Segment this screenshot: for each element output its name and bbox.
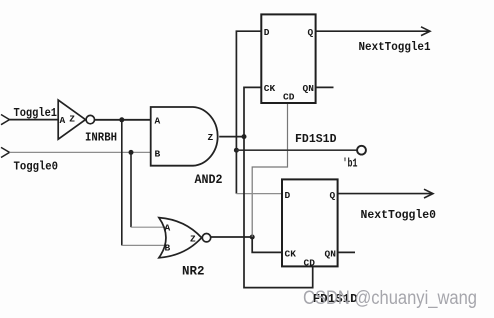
wire U1 Q to NextToggle1 — [316, 30, 430, 32]
svg-text:A: A — [60, 115, 66, 126]
wire into U1 CK — [244, 87, 313, 287]
svg-text:Q: Q — [330, 190, 336, 201]
nor-gate NR2 — [159, 218, 202, 258]
svg-text:FD1S1D: FD1S1D — [295, 132, 337, 146]
svg-text:CK: CK — [264, 83, 276, 94]
svg-text:AND2: AND2 — [195, 173, 223, 187]
svg-text:D: D — [264, 27, 270, 38]
svg-text:Z: Z — [190, 234, 196, 245]
svg-text:INRBH: INRBH — [85, 131, 117, 145]
junction dot on Toggle0 line — [129, 150, 134, 155]
svg-text:Q: Q — [308, 27, 314, 38]
junction dot AND2 output — [242, 134, 247, 139]
wire AND2 Z output — [219, 136, 244, 138]
wire inverter output down to NR2 B — [121, 120, 123, 246]
svg-text:Toggle1: Toggle1 — [14, 106, 58, 120]
svg-text:QN: QN — [325, 249, 337, 260]
svg-text:Toggle0: Toggle0 — [14, 160, 59, 174]
wire inverter Z to AND2 A — [95, 119, 151, 121]
svg-text:NextToggle1: NextToggle1 — [359, 40, 431, 54]
bubble of NR2 — [202, 234, 210, 242]
and-gate AND2 — [151, 107, 218, 166]
wire NR2 output up to U1 CD — [252, 103, 287, 237]
stub U2 QN — [338, 251, 355, 253]
junction dot on b1 net — [234, 148, 239, 153]
svg-text:NR2: NR2 — [182, 265, 205, 279]
wire into U1 D — [236, 31, 261, 193]
svg-text:Z: Z — [208, 132, 214, 143]
wire NR2 output down to U2 CK — [252, 237, 282, 252]
input port Toggle1 — [1, 115, 10, 125]
junction dot NR2 output — [250, 235, 255, 240]
inverter U3 INRBH — [58, 100, 94, 139]
wire NR2 Z output — [211, 236, 253, 238]
wire into NR2 A — [131, 226, 167, 228]
svg-text:Z: Z — [69, 114, 75, 125]
svg-text:CSDN @chuanyi_wang: CSDN @chuanyi_wang — [303, 288, 477, 309]
wire U2 Q to NextToggle0 — [338, 193, 433, 195]
wire Toggle0 to AND2 B — [10, 151, 151, 153]
flip-flop U1 FD1S1D — [261, 14, 315, 103]
flip-flop U2 FD1S1D — [282, 179, 338, 266]
svg-text:A: A — [155, 116, 161, 127]
arrowhead NextToggle1 — [421, 27, 430, 36]
wire into NR2 B — [122, 244, 167, 246]
svg-text:D: D — [285, 190, 291, 201]
svg-text:B: B — [165, 243, 171, 254]
svg-text:'b1: 'b1 — [343, 158, 358, 171]
terminal circle b1 — [357, 146, 366, 155]
svg-text:A: A — [165, 223, 171, 234]
input port Toggle0 — [1, 147, 10, 157]
svg-text:CK: CK — [285, 249, 297, 260]
stub U1 QN — [316, 86, 334, 88]
wire b1 net — [236, 149, 357, 151]
svg-text:CD: CD — [283, 92, 295, 103]
svg-text:CD: CD — [304, 258, 316, 269]
wire Toggle1 to inverter A — [10, 119, 59, 121]
svg-text:B: B — [155, 149, 161, 160]
wire Toggle0 down to NR2 A — [130, 152, 132, 227]
wire into U2 D — [236, 193, 282, 195]
svg-text:NextToggle0: NextToggle0 — [361, 208, 437, 222]
svg-text:QN: QN — [303, 83, 315, 94]
arrowhead NextToggle0 — [424, 189, 433, 198]
junction dot on inverter output — [119, 117, 124, 122]
